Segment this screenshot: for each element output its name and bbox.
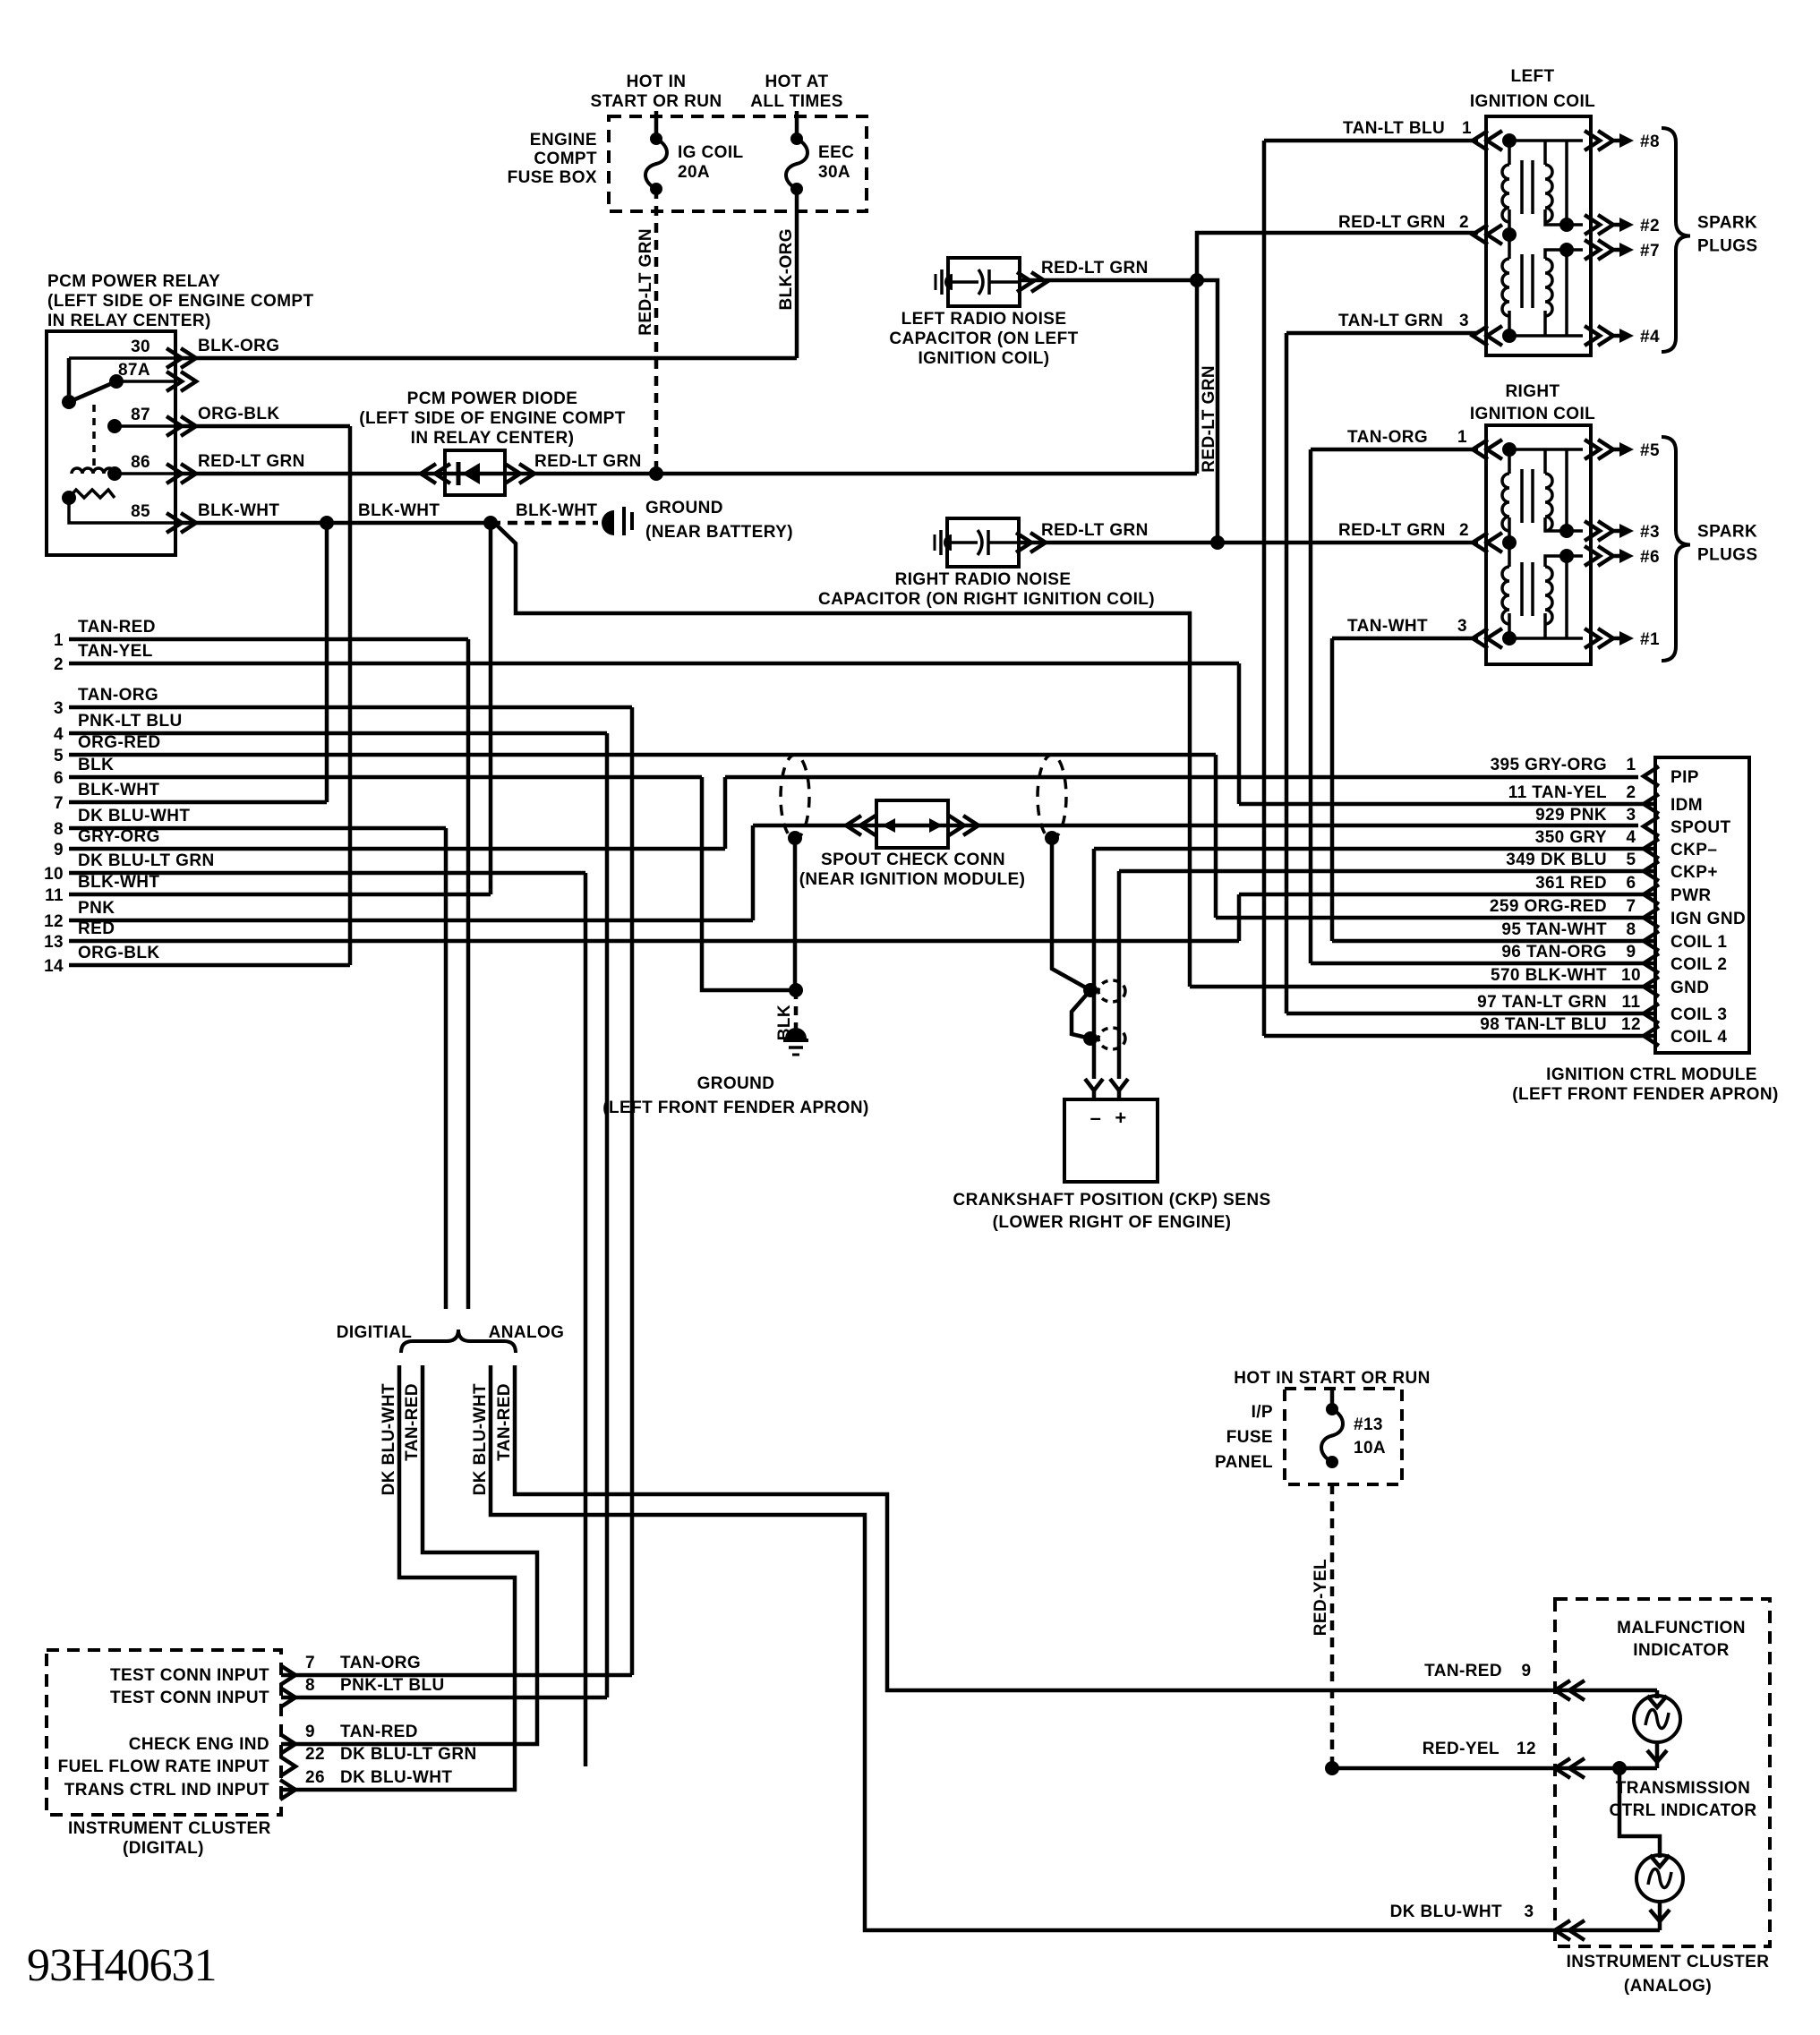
svg-text:(DIGITAL): (DIGITAL) xyxy=(123,1839,204,1858)
svg-text:IGNITION CTRL MODULE: IGNITION CTRL MODULE xyxy=(1546,1065,1757,1084)
svg-text:#5: #5 xyxy=(1640,441,1660,460)
svg-text:349 DK BLU: 349 DK BLU xyxy=(1506,851,1607,869)
svg-text:DK BLU-WHT: DK BLU-WHT xyxy=(471,1383,490,1495)
svg-text:GND: GND xyxy=(1670,979,1709,997)
svg-text:5: 5 xyxy=(1627,851,1636,869)
svg-text:350 GRY: 350 GRY xyxy=(1535,828,1607,847)
svg-text:3: 3 xyxy=(1627,806,1636,825)
svg-text:5: 5 xyxy=(54,747,64,765)
svg-text:IN RELAY CENTER): IN RELAY CENTER) xyxy=(411,429,575,448)
svg-text:TAN-ORG: TAN-ORG xyxy=(78,686,158,705)
svg-text:86: 86 xyxy=(131,453,150,472)
svg-text:85: 85 xyxy=(131,502,150,521)
svg-text:8: 8 xyxy=(305,1676,315,1695)
svg-text:BLK-ORG: BLK-ORG xyxy=(198,337,279,355)
svg-text:TAN-ORG: TAN-ORG xyxy=(1347,428,1428,447)
svg-text:EEC: EEC xyxy=(818,143,854,162)
svg-text:#13: #13 xyxy=(1354,1415,1383,1434)
svg-text:3: 3 xyxy=(54,699,64,718)
svg-text:PIP: PIP xyxy=(1670,768,1699,787)
svg-text:FUSE BOX: FUSE BOX xyxy=(508,168,597,187)
svg-text:#3: #3 xyxy=(1640,523,1660,542)
svg-text:COIL 4: COIL 4 xyxy=(1670,1028,1727,1047)
svg-text:97 TAN-LT GRN: 97 TAN-LT GRN xyxy=(1477,993,1607,1012)
svg-text:GROUND: GROUND xyxy=(645,499,723,517)
svg-text:TAN-RED: TAN-RED xyxy=(340,1723,418,1741)
svg-text:BLK-WHT: BLK-WHT xyxy=(358,501,440,520)
svg-text:7: 7 xyxy=(305,1654,315,1672)
svg-text:PNK-LT BLU: PNK-LT BLU xyxy=(340,1676,445,1695)
svg-text:6: 6 xyxy=(54,769,64,788)
svg-text:14: 14 xyxy=(44,957,64,976)
svg-text:–: – xyxy=(1090,1107,1102,1129)
svg-text:ENGINE: ENGINE xyxy=(530,131,597,150)
svg-text:CKP–: CKP– xyxy=(1670,841,1717,859)
svg-text:RIGHT: RIGHT xyxy=(1505,382,1559,401)
svg-text:#4: #4 xyxy=(1640,328,1660,346)
svg-text:ORG-BLK: ORG-BLK xyxy=(78,944,159,962)
svg-text:INDICATOR: INDICATOR xyxy=(1633,1641,1729,1660)
svg-text:HOT IN: HOT IN xyxy=(627,73,687,91)
svg-text:+: + xyxy=(1115,1107,1126,1129)
svg-text:96 TAN-ORG: 96 TAN-ORG xyxy=(1501,943,1607,962)
svg-text:12: 12 xyxy=(1621,1015,1641,1034)
svg-text:SPARK: SPARK xyxy=(1697,523,1757,542)
svg-text:IDM: IDM xyxy=(1670,796,1703,815)
svg-text:GROUND: GROUND xyxy=(697,1074,775,1093)
svg-text:11: 11 xyxy=(1622,993,1641,1012)
svg-text:BLK-WHT: BLK-WHT xyxy=(198,501,279,520)
svg-text:TEST CONN INPUT: TEST CONN INPUT xyxy=(110,1689,269,1707)
svg-text:BLK-WHT: BLK-WHT xyxy=(78,781,159,799)
svg-text:INSTRUMENT CLUSTER: INSTRUMENT CLUSTER xyxy=(1567,1953,1770,1971)
svg-text:8: 8 xyxy=(1627,920,1636,939)
svg-text:PNK: PNK xyxy=(78,899,115,918)
svg-text:1: 1 xyxy=(54,631,64,650)
svg-text:HOT IN START OR RUN: HOT IN START OR RUN xyxy=(1234,1369,1430,1388)
svg-text:SPOUT CHECK CONN: SPOUT CHECK CONN xyxy=(821,851,1005,869)
svg-text:RED-YEL: RED-YEL xyxy=(1312,1559,1330,1636)
svg-text:RED-YEL: RED-YEL xyxy=(1423,1740,1500,1758)
svg-text:#8: #8 xyxy=(1640,133,1660,151)
svg-text:361 RED: 361 RED xyxy=(1535,874,1607,893)
svg-text:1: 1 xyxy=(1462,119,1472,138)
svg-text:TEST CONN INPUT: TEST CONN INPUT xyxy=(110,1666,269,1685)
svg-text:3: 3 xyxy=(1459,312,1469,330)
svg-text:(LEFT SIDE OF ENGINE COMPT: (LEFT SIDE OF ENGINE COMPT xyxy=(47,292,314,311)
svg-text:BLK-WHT: BLK-WHT xyxy=(516,501,597,520)
svg-text:DK BLU-WHT: DK BLU-WHT xyxy=(380,1383,398,1495)
svg-text:#6: #6 xyxy=(1640,548,1660,567)
svg-text:COIL 3: COIL 3 xyxy=(1670,1005,1727,1024)
svg-text:26: 26 xyxy=(305,1768,325,1787)
svg-text:2: 2 xyxy=(54,655,64,674)
svg-text:4: 4 xyxy=(1627,828,1636,847)
svg-text:(LEFT SIDE OF ENGINE COMPT: (LEFT SIDE OF ENGINE COMPT xyxy=(359,409,626,428)
svg-text:IGNITION COIL: IGNITION COIL xyxy=(1470,92,1595,111)
svg-text:#2: #2 xyxy=(1640,217,1660,235)
svg-text:FUSE: FUSE xyxy=(1226,1428,1273,1447)
svg-text:(LEFT FRONT FENDER APRON): (LEFT FRONT FENDER APRON) xyxy=(602,1099,868,1117)
svg-text:TRANS CTRL IND INPUT: TRANS CTRL IND INPUT xyxy=(64,1781,269,1800)
svg-text:259 ORG-RED: 259 ORG-RED xyxy=(1490,897,1607,916)
svg-text:395 GRY-ORG: 395 GRY-ORG xyxy=(1491,756,1607,774)
svg-text:CTRL INDICATOR: CTRL INDICATOR xyxy=(1610,1801,1757,1820)
svg-text:I/P: I/P xyxy=(1252,1403,1273,1422)
svg-text:10: 10 xyxy=(44,865,64,884)
svg-text:START OR RUN: START OR RUN xyxy=(591,92,722,111)
svg-text:GRY-ORG: GRY-ORG xyxy=(78,827,160,846)
svg-text:20A: 20A xyxy=(678,163,710,182)
svg-text:HOT AT: HOT AT xyxy=(765,73,829,91)
svg-text:87A: 87A xyxy=(118,361,150,380)
svg-text:LEFT: LEFT xyxy=(1510,67,1554,86)
svg-text:1: 1 xyxy=(1627,756,1636,774)
svg-text:PCM POWER RELAY: PCM POWER RELAY xyxy=(47,272,220,291)
svg-text:CAPACITOR (ON RIGHT IGNITION C: CAPACITOR (ON RIGHT IGNITION COIL) xyxy=(818,590,1155,609)
svg-text:COIL 2: COIL 2 xyxy=(1670,955,1727,974)
svg-text:(LEFT FRONT FENDER APRON): (LEFT FRONT FENDER APRON) xyxy=(1512,1085,1778,1104)
svg-text:7: 7 xyxy=(1627,897,1636,916)
svg-text:DK BLU-LT GRN: DK BLU-LT GRN xyxy=(340,1745,477,1764)
svg-text:RED-LT GRN: RED-LT GRN xyxy=(1338,213,1446,232)
svg-text:PCM POWER DIODE: PCM POWER DIODE xyxy=(407,389,578,408)
svg-text:TAN-YEL: TAN-YEL xyxy=(78,642,153,661)
svg-text:1: 1 xyxy=(1457,428,1467,447)
svg-text:RED-LT GRN: RED-LT GRN xyxy=(637,228,655,336)
svg-text:PLUGS: PLUGS xyxy=(1697,237,1757,256)
svg-text:(NEAR IGNITION MODULE): (NEAR IGNITION MODULE) xyxy=(799,870,1026,889)
svg-text:TRANSMISSION: TRANSMISSION xyxy=(1616,1779,1750,1798)
svg-text:COIL 1: COIL 1 xyxy=(1670,933,1727,952)
svg-text:ALL TIMES: ALL TIMES xyxy=(750,92,843,111)
svg-text:ANALOG: ANALOG xyxy=(489,1323,565,1342)
svg-text:4: 4 xyxy=(54,725,64,744)
svg-text:RED-LT GRN: RED-LT GRN xyxy=(1041,521,1149,540)
svg-text:TAN-RED: TAN-RED xyxy=(403,1383,422,1461)
svg-text:#7: #7 xyxy=(1640,242,1660,261)
svg-text:BLK: BLK xyxy=(78,756,114,774)
svg-text:SPARK: SPARK xyxy=(1697,214,1757,233)
svg-text:2: 2 xyxy=(1459,521,1469,540)
svg-text:TAN-LT BLU: TAN-LT BLU xyxy=(1343,119,1445,138)
svg-text:7: 7 xyxy=(54,794,64,813)
svg-text:RED-LT GRN: RED-LT GRN xyxy=(1338,521,1446,540)
svg-text:DK BLU-LT GRN: DK BLU-LT GRN xyxy=(78,851,215,870)
svg-text:IG COIL: IG COIL xyxy=(678,143,744,162)
svg-text:ORG-BLK: ORG-BLK xyxy=(198,405,279,423)
svg-text:ORG-RED: ORG-RED xyxy=(78,733,161,752)
svg-text:RED-LT GRN: RED-LT GRN xyxy=(1200,365,1218,473)
svg-text:MALFUNCTION: MALFUNCTION xyxy=(1617,1619,1746,1637)
svg-text:RIGHT RADIO NOISE: RIGHT RADIO NOISE xyxy=(895,570,1072,589)
svg-text:BLK-WHT: BLK-WHT xyxy=(78,873,159,892)
svg-text:(LOWER RIGHT OF ENGINE): (LOWER RIGHT OF ENGINE) xyxy=(993,1213,1232,1232)
svg-text:2: 2 xyxy=(1459,213,1469,232)
svg-text:3: 3 xyxy=(1457,617,1467,636)
svg-text:IN RELAY CENTER): IN RELAY CENTER) xyxy=(47,312,211,330)
svg-text:TAN-RED: TAN-RED xyxy=(495,1383,514,1461)
svg-text:TAN-LT GRN: TAN-LT GRN xyxy=(1338,312,1443,330)
svg-text:TAN-RED: TAN-RED xyxy=(78,618,156,637)
svg-text:RED: RED xyxy=(78,919,115,938)
svg-text:9: 9 xyxy=(305,1723,315,1741)
svg-text:RED-LT GRN: RED-LT GRN xyxy=(534,452,642,471)
svg-text:10: 10 xyxy=(1621,966,1641,985)
svg-text:DIGITIAL: DIGITIAL xyxy=(337,1323,412,1342)
svg-text:PWR: PWR xyxy=(1670,886,1712,905)
svg-text:CRANKSHAFT POSITION (CKP) SENS: CRANKSHAFT POSITION (CKP) SENS xyxy=(953,1191,1270,1210)
svg-text:DK BLU-WHT: DK BLU-WHT xyxy=(1390,1902,1502,1921)
svg-text:DK BLU-WHT: DK BLU-WHT xyxy=(78,807,190,825)
svg-text:CKP+: CKP+ xyxy=(1670,863,1718,882)
svg-text:6: 6 xyxy=(1627,874,1636,893)
svg-text:95 TAN-WHT: 95 TAN-WHT xyxy=(1501,920,1607,939)
svg-text:PNK-LT BLU: PNK-LT BLU xyxy=(78,712,183,731)
svg-text:IGNITION COIL: IGNITION COIL xyxy=(1470,405,1595,423)
svg-text:9: 9 xyxy=(1522,1662,1532,1680)
svg-text:CAPACITOR (ON LEFT: CAPACITOR (ON LEFT xyxy=(889,329,1078,348)
svg-text:11: 11 xyxy=(45,886,64,905)
svg-text:87: 87 xyxy=(131,406,150,424)
svg-text:SPOUT: SPOUT xyxy=(1670,818,1730,837)
svg-text:TAN-RED: TAN-RED xyxy=(1424,1662,1502,1680)
svg-text:FUEL FLOW RATE INPUT: FUEL FLOW RATE INPUT xyxy=(58,1757,269,1776)
svg-text:12: 12 xyxy=(44,912,64,931)
svg-text:22: 22 xyxy=(305,1745,325,1764)
svg-text:#1: #1 xyxy=(1640,630,1660,649)
svg-text:8: 8 xyxy=(54,820,64,839)
svg-text:COMPT: COMPT xyxy=(534,150,597,168)
svg-text:IGNITION COIL): IGNITION COIL) xyxy=(918,349,1049,368)
svg-text:PANEL: PANEL xyxy=(1215,1453,1273,1472)
svg-text:CHECK ENG IND: CHECK ENG IND xyxy=(129,1735,269,1754)
svg-text:TAN-ORG: TAN-ORG xyxy=(340,1654,421,1672)
svg-text:RED-LT GRN: RED-LT GRN xyxy=(198,452,305,471)
svg-text:13: 13 xyxy=(44,933,64,952)
svg-text:TAN-WHT: TAN-WHT xyxy=(1347,617,1428,636)
svg-text:9: 9 xyxy=(54,841,64,859)
svg-text:IGN GND: IGN GND xyxy=(1670,910,1746,928)
svg-text:LEFT RADIO NOISE: LEFT RADIO NOISE xyxy=(901,310,1067,329)
svg-text:12: 12 xyxy=(1517,1740,1536,1758)
svg-text:9: 9 xyxy=(1627,943,1636,962)
svg-text:30: 30 xyxy=(131,338,150,356)
svg-text:PLUGS: PLUGS xyxy=(1697,546,1757,565)
svg-text:(NEAR BATTERY): (NEAR BATTERY) xyxy=(645,523,793,542)
svg-text:2: 2 xyxy=(1627,783,1636,802)
svg-text:(ANALOG): (ANALOG) xyxy=(1624,1977,1712,1996)
svg-text:RED-LT GRN: RED-LT GRN xyxy=(1041,259,1149,278)
svg-text:570 BLK-WHT: 570 BLK-WHT xyxy=(1491,966,1607,985)
svg-text:10A: 10A xyxy=(1354,1439,1386,1458)
svg-text:93H40631: 93H40631 xyxy=(27,1940,217,1991)
svg-text:DK BLU-WHT: DK BLU-WHT xyxy=(340,1768,452,1787)
svg-text:929 PNK: 929 PNK xyxy=(1535,806,1607,825)
svg-text:INSTRUMENT CLUSTER: INSTRUMENT CLUSTER xyxy=(68,1819,271,1838)
svg-text:30A: 30A xyxy=(818,163,850,182)
svg-text:11 TAN-YEL: 11 TAN-YEL xyxy=(1508,783,1607,802)
svg-text:BLK-ORG: BLK-ORG xyxy=(777,228,796,310)
svg-text:98 TAN-LT BLU: 98 TAN-LT BLU xyxy=(1480,1015,1607,1034)
svg-text:3: 3 xyxy=(1525,1902,1534,1921)
